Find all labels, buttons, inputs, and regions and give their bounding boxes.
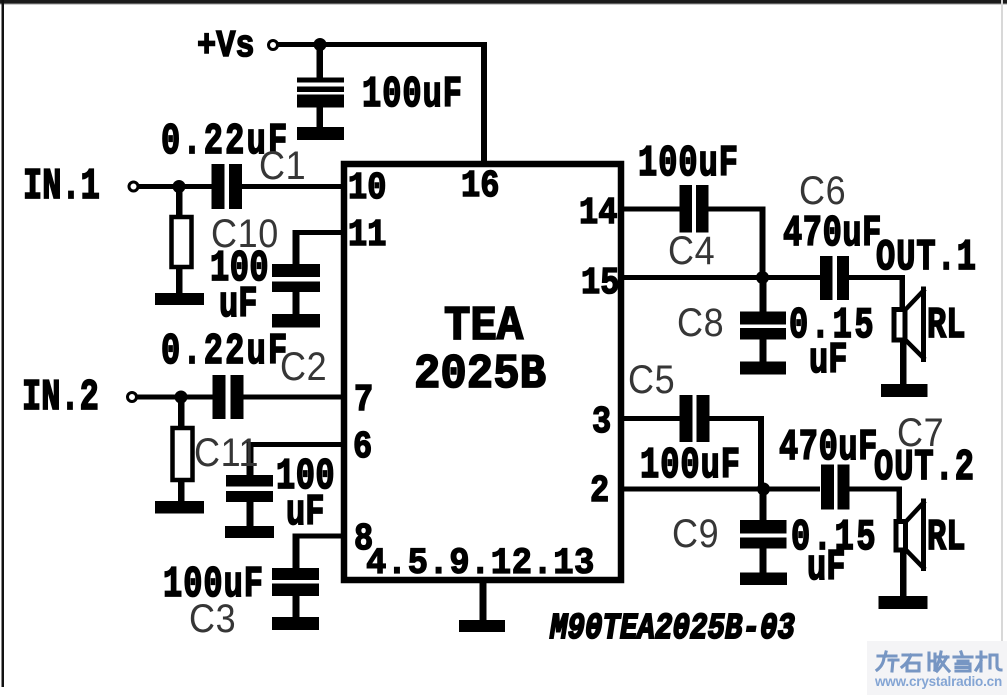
capacitor C3 lead xyxy=(293,596,300,617)
svg-text:100uF: 100uF xyxy=(640,442,741,491)
terminal IN.1 xyxy=(129,182,138,191)
ground C11 xyxy=(225,526,274,538)
capacitor C-power 100uF lead xyxy=(317,47,324,78)
svg-text:C1: C1 xyxy=(259,144,306,188)
svg-text:uF: uF xyxy=(286,489,324,538)
wire pin 15 to C6 xyxy=(624,275,820,280)
wire corner down to junction xyxy=(760,207,766,281)
wire pin 11 to C10 xyxy=(296,230,341,235)
svg-text:470uF: 470uF xyxy=(779,424,878,473)
svg-text:470uF: 470uF xyxy=(783,210,882,259)
capacitor C11 lead xyxy=(247,502,254,526)
watermark backdrop xyxy=(867,641,1007,695)
svg-text:2025B: 2025B xyxy=(414,346,546,401)
wire IC ground stub xyxy=(480,583,487,622)
border right faint xyxy=(1001,0,1003,695)
svg-text:0.22uF: 0.22uF xyxy=(161,328,289,377)
junction IN.1 xyxy=(173,180,186,193)
wire C2 to pin 7 xyxy=(244,395,342,400)
wire pin 14 to C4 xyxy=(624,207,680,212)
capacitor C8 plates xyxy=(740,312,786,325)
junction on +Vs rail xyxy=(314,38,327,51)
capacitor C3 plates xyxy=(272,568,319,580)
wire IN.1 to C1 xyxy=(138,184,212,189)
capacitor C11 plates xyxy=(226,475,273,487)
ground RL2 xyxy=(879,596,928,609)
svg-text:IN.1: IN.1 xyxy=(23,163,100,212)
wire C7 to speaker 2 xyxy=(850,487,902,492)
svg-text:OUT.2: OUT.2 xyxy=(874,444,975,493)
wire pin 6 to C11 xyxy=(250,442,341,447)
svg-text:C11: C11 xyxy=(194,431,259,475)
svg-text:M90TEA2025B-03: M90TEA2025B-03 xyxy=(549,608,795,649)
capacitor C10 lead xyxy=(293,292,300,314)
svg-text:3: 3 xyxy=(592,400,611,443)
wire corner down to junction 2 xyxy=(758,416,764,491)
svg-text:C6: C6 xyxy=(799,169,846,213)
border top xyxy=(0,0,1007,4)
svg-text:+Vs: +Vs xyxy=(197,25,255,68)
capacitor C10 plates xyxy=(272,264,320,277)
svg-text:RL: RL xyxy=(927,302,965,351)
svg-text:7: 7 xyxy=(354,378,373,421)
wire C6 to speaker xyxy=(849,275,903,280)
svg-text:C9: C9 xyxy=(672,512,719,556)
svg-text:14: 14 xyxy=(579,191,617,234)
capacitor C6 470uF plates xyxy=(820,256,833,300)
capacitor C2 0.22uF plates xyxy=(213,375,226,419)
wire C1 to pin 10 xyxy=(242,184,341,189)
resistor R-in1 xyxy=(172,217,192,267)
speaker RL2 lead xyxy=(900,550,907,598)
ground C8 xyxy=(740,362,786,375)
svg-text:C8: C8 xyxy=(677,301,724,345)
watermark chinese strokes xyxy=(877,652,1001,671)
wire pin 2 to C7 xyxy=(624,487,820,492)
svg-text:16: 16 xyxy=(461,164,499,207)
capacitor C7 470uF plates xyxy=(821,465,834,510)
wire C5 to corner xyxy=(710,416,764,421)
resistor R-in1 top lead xyxy=(176,189,183,216)
svg-text:2: 2 xyxy=(590,469,609,512)
capacitor C-power plates xyxy=(297,78,344,83)
ground of C-power xyxy=(297,127,344,140)
resistor R-in2 xyxy=(173,428,193,480)
svg-text:C2: C2 xyxy=(280,345,327,389)
capacitor C8 lead xyxy=(760,340,767,362)
svg-text:15: 15 xyxy=(581,261,619,304)
wire pin 8 to C3 xyxy=(296,534,341,539)
border left xyxy=(2,0,5,687)
resistor R-in1 bottom lead xyxy=(176,269,183,295)
svg-text:100uF: 100uF xyxy=(638,140,739,189)
svg-text:www.crystalradio.cn: www.crystalradio.cn xyxy=(874,674,1002,689)
svg-text:uF: uF xyxy=(219,281,257,330)
terminal IN.2 xyxy=(128,393,137,402)
junction IN.2 xyxy=(175,391,188,404)
svg-text:uF: uF xyxy=(807,544,845,593)
IC U1 TEA2025B body xyxy=(344,164,621,580)
ground C10 xyxy=(272,314,320,328)
svg-text:RL: RL xyxy=(927,514,965,563)
wire +Vs top rail xyxy=(277,42,487,47)
svg-text:C4: C4 xyxy=(668,229,715,273)
ground R-in1 xyxy=(155,293,204,305)
speaker RL1 cone xyxy=(906,289,925,309)
wire pin 3 to C5 xyxy=(624,416,680,421)
capacitor C8 lead from junction xyxy=(760,280,767,312)
svg-text:6: 6 xyxy=(353,425,372,468)
speaker RL1 lead xyxy=(900,343,907,387)
terminal +Vs xyxy=(269,41,278,50)
junction pin2/C5/C9 xyxy=(757,483,770,496)
svg-text:100uF: 100uF xyxy=(362,71,463,120)
capacitor C-power bottom lead xyxy=(317,107,324,128)
resistor R-in2 bottom lead xyxy=(178,482,185,502)
svg-text:C5: C5 xyxy=(628,358,675,402)
capacitor C9 lead 2 xyxy=(760,549,767,573)
speaker RL2 driver xyxy=(896,522,906,551)
junction pin15/C4/C8 xyxy=(756,271,769,284)
speaker RL2 cone xyxy=(906,501,925,522)
svg-text:11: 11 xyxy=(348,213,386,256)
ground C3 xyxy=(272,617,319,630)
ground IC xyxy=(459,620,505,632)
wire C4 to corner xyxy=(709,207,766,212)
svg-text:4.5.9.12.13: 4.5.9.12.13 xyxy=(366,542,595,585)
resistor R-in2 top lead xyxy=(178,399,185,427)
wire to pin 16 xyxy=(481,42,487,164)
ground C9 xyxy=(740,573,787,586)
svg-text:10: 10 xyxy=(348,166,386,209)
svg-text:uF: uF xyxy=(809,337,847,386)
capacitor C4 plates xyxy=(680,185,693,233)
speaker RL1 driver xyxy=(894,310,905,341)
svg-text:IN.2: IN.2 xyxy=(22,374,99,423)
capacitor C1 0.22uF plates xyxy=(212,164,225,209)
ground R-in2 xyxy=(155,501,204,514)
capacitor C9 lead from junction xyxy=(760,491,767,521)
svg-text:C3: C3 xyxy=(189,597,236,641)
capacitor C9 plates xyxy=(740,520,787,534)
ground RL1 xyxy=(881,384,928,397)
capacitor C5 plates xyxy=(680,395,693,442)
wire IN.2 to C2 xyxy=(137,395,213,400)
